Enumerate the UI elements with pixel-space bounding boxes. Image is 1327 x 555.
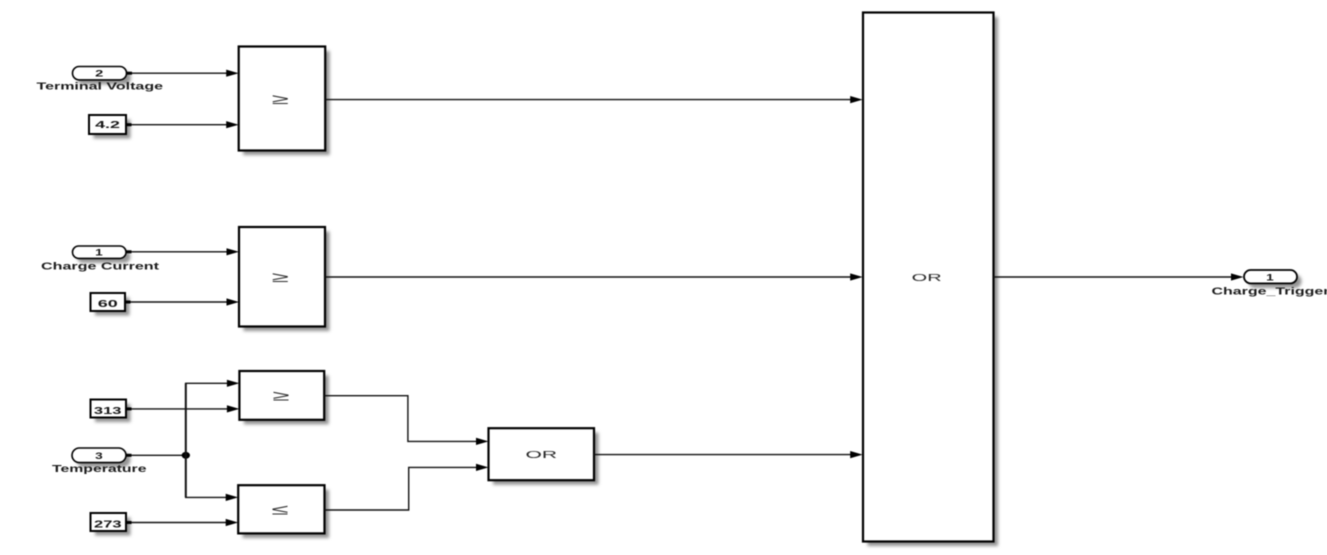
wire inport2 -> REL1	[127, 70, 239, 77]
port stub constant4.2	[126, 123, 132, 126]
port stub inport3	[126, 454, 132, 457]
svg-text:Temperature: Temperature	[52, 464, 147, 475]
port stub inport2	[127, 72, 133, 75]
svg-text:1: 1	[1266, 272, 1275, 283]
wire OR small -> OR big input3	[594, 451, 863, 458]
svg-text:Terminal Voltage: Terminal Voltage	[37, 82, 164, 93]
logical operator OR small	[489, 428, 599, 485]
wire branch bottom -> REL4 input1	[185, 494, 238, 501]
svg-text:Charge Current: Charge Current	[41, 261, 160, 272]
inport 2 (Terminal Voltage)	[37, 67, 164, 93]
port stub constant273	[126, 521, 132, 524]
svg-text:60: 60	[98, 298, 118, 310]
svg-text:OR: OR	[526, 449, 558, 461]
svg-text:1: 1	[95, 248, 104, 259]
svg-text:≤: ≤	[272, 503, 289, 519]
svg-text:≥: ≥	[272, 92, 289, 108]
port stub inport1	[126, 250, 132, 253]
wire REL4 -> OR small input2	[325, 464, 489, 510]
svg-text:273: 273	[94, 519, 122, 531]
port stub constant313	[126, 407, 132, 410]
junction node dot	[182, 452, 190, 459]
wire constant4.2 -> REL1	[126, 121, 239, 128]
inport 3 (Temperature)	[52, 448, 147, 475]
wire inport1 -> REL2	[126, 248, 239, 255]
inport 1 (Charge Current)	[41, 246, 160, 272]
relational operator REL2 (>=)	[239, 227, 330, 331]
constant 60	[91, 293, 130, 316]
outport 1 (Charge_Trigger)	[1212, 270, 1327, 297]
wire REL3 -> OR small input1	[324, 396, 488, 445]
svg-text:≥: ≥	[273, 388, 290, 404]
svg-text:3: 3	[95, 451, 103, 462]
wire constant60 -> REL2	[125, 298, 239, 305]
wire branch vertical	[185, 383, 187, 497]
wire REL1 -> OR big input1	[325, 96, 863, 103]
svg-text:Charge_Trigger: Charge_Trigger	[1212, 286, 1327, 297]
wire OR big -> outport	[994, 273, 1244, 280]
port stub constant60	[125, 301, 131, 304]
svg-text:≥: ≥	[272, 270, 289, 286]
constant 4.2	[89, 115, 131, 139]
relational operator REL1 (>=)	[239, 47, 330, 156]
svg-text:313: 313	[94, 405, 122, 417]
wire branch top -> REL3 input1	[185, 380, 239, 387]
constant 273	[91, 513, 131, 536]
svg-text:2: 2	[95, 69, 103, 80]
wire REL2 -> OR big input2	[325, 273, 863, 280]
relational operator REL4 (<=)	[238, 485, 329, 538]
svg-text:4.2: 4.2	[95, 119, 120, 131]
wire constant313 -> REL3 input2	[126, 405, 239, 412]
wire constant273 -> REL4 input2	[126, 519, 238, 526]
logical operator OR big	[863, 13, 998, 547]
wire inport3 -> junction	[126, 454, 186, 456]
relational operator REL3 (>=)	[239, 371, 328, 424]
svg-text:OR: OR	[912, 272, 943, 284]
constant 313	[91, 400, 131, 423]
